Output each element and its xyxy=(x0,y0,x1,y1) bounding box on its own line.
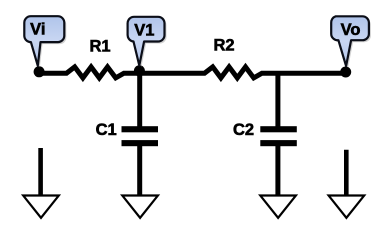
node Vo (dot) xyxy=(340,67,351,78)
svg-text:Vo: Vo xyxy=(341,21,361,39)
node Vi (dot) xyxy=(34,66,45,77)
svg-text:R2: R2 xyxy=(213,36,234,54)
callout Vo xyxy=(331,16,369,66)
svg-text:R1: R1 xyxy=(89,37,110,55)
callout Vi xyxy=(24,16,64,66)
ground (under C1) xyxy=(122,196,158,218)
node V1 (dot) xyxy=(134,65,145,76)
wire C1 branch upper xyxy=(137,71,142,127)
callout Vo shadow xyxy=(333,18,371,68)
capacitor C1 xyxy=(122,126,159,146)
svg-text:C1: C1 xyxy=(96,121,117,139)
wire C2 branch upper xyxy=(275,71,280,127)
ground (right, under Vo) xyxy=(329,196,365,218)
capacitor C2 xyxy=(260,126,297,146)
callout V1 xyxy=(128,17,165,66)
wire main horizontal with resistors xyxy=(39,67,346,78)
svg-text:Vi: Vi xyxy=(30,21,45,39)
svg-text:V1: V1 xyxy=(134,21,154,39)
ground (left, under Vi) xyxy=(23,196,59,218)
wire left ground stub xyxy=(38,148,43,195)
svg-text:C2: C2 xyxy=(233,121,254,139)
ground (under C2) xyxy=(260,196,296,218)
wire C2 branch lower xyxy=(275,146,280,195)
callout V1 shadow xyxy=(130,19,167,68)
callout Vi shadow xyxy=(26,18,66,68)
wire right ground stub xyxy=(344,150,349,195)
wire C1 branch lower xyxy=(137,146,142,195)
